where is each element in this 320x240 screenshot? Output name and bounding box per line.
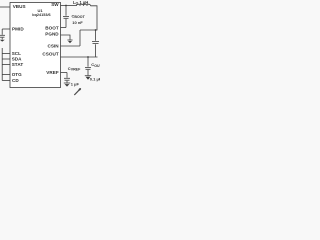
- wire artifact diagonal: [74, 89, 80, 95]
- svg-text:CD: CD: [12, 78, 19, 83]
- node RSNS junction: [95, 29, 97, 31]
- node SW-CBOOT junction: [65, 5, 67, 7]
- ground PGND: [67, 40, 72, 43]
- svg-text:COUT: COUT: [91, 62, 100, 68]
- svg-text:0.1 µF: 0.1 µF: [90, 77, 100, 82]
- svg-text:PGND: PGND: [45, 32, 59, 37]
- inductor Lo: [77, 4, 91, 6]
- capacitor C_BOOT: [63, 6, 69, 28]
- wire PGND: [61, 35, 71, 40]
- svg-text:SDA: SDA: [12, 56, 22, 61]
- svg-text:OTG: OTG: [12, 72, 22, 77]
- svg-text:CVREF: CVREF: [68, 66, 81, 72]
- wire VBUS input: [0, 6, 10, 8]
- ground C_OUT: [85, 76, 91, 80]
- op-amp U1: [10, 3, 61, 88]
- capacitor C_VREF: [64, 73, 70, 83]
- svg-text:SCL: SCL: [12, 51, 21, 56]
- wire BOOT pin: [61, 27, 67, 29]
- wire CSIN riser: [79, 30, 81, 46]
- wire SDA stub: [2, 58, 10, 60]
- wire STAT stub: [2, 64, 10, 66]
- capacitor C_PMID: [0, 29, 5, 39]
- wire CSOUT: [61, 56, 98, 58]
- svg-text:VREF: VREF: [46, 70, 59, 75]
- wire SCL stub: [2, 53, 10, 55]
- svg-text:CBOOT: CBOOT: [72, 14, 86, 20]
- capacitor C_OUT: [85, 57, 91, 75]
- svg-text:LO 1 µH: LO 1 µH: [73, 0, 88, 5]
- wire CD stub: [2, 80, 10, 82]
- wire OTG stub: [2, 74, 10, 76]
- ground C_VREF: [64, 83, 70, 87]
- svg-text:STAT: STAT: [12, 62, 24, 67]
- node COUT junction: [87, 56, 89, 58]
- wire SW output: [61, 5, 77, 7]
- wire inductor to corner: [80, 6, 97, 30]
- wire VREF pin: [61, 72, 68, 74]
- svg-text:CSIN: CSIN: [48, 43, 60, 48]
- wire PMID stub: [2, 28, 10, 30]
- svg-text:bq24153/6: bq24153/6: [32, 13, 50, 17]
- ground for C_PMID: [0, 40, 5, 42]
- wire host rail: [1, 48, 3, 81]
- wire CSIN: [61, 45, 81, 47]
- resistor R_SNS: [92, 30, 99, 57]
- svg-text:BOOT: BOOT: [45, 26, 59, 31]
- svg-text:1 µF: 1 µF: [71, 81, 80, 86]
- svg-text:SW: SW: [51, 2, 59, 7]
- svg-text:10 nF: 10 nF: [72, 20, 83, 25]
- svg-text:PMID: PMID: [12, 26, 24, 31]
- svg-text:VBUS: VBUS: [13, 4, 26, 9]
- svg-text:CSOUT: CSOUT: [42, 52, 58, 57]
